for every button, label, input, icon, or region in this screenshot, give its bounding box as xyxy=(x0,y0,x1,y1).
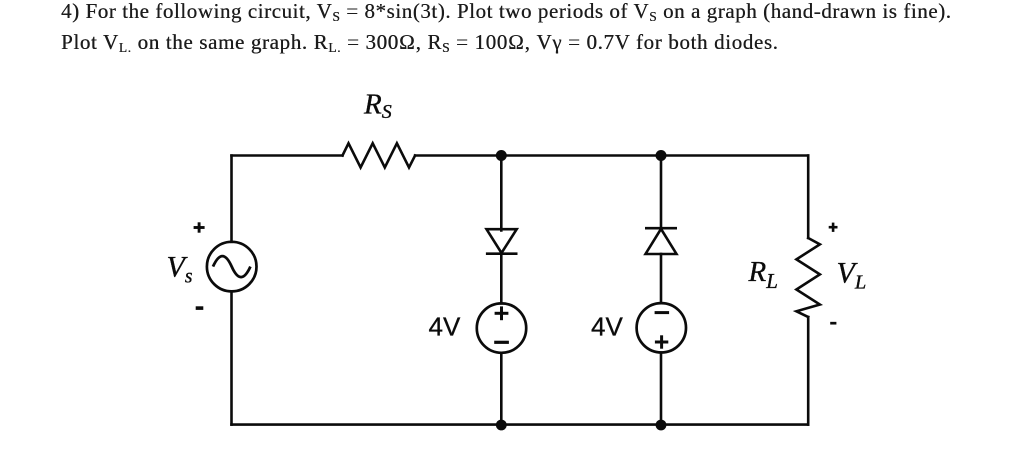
VL - polarity mark xyxy=(830,322,836,325)
wire: D2 branch from node B to diode D2 xyxy=(660,156,663,229)
wire: top from node B to top-right corner xyxy=(661,154,808,157)
node B (top junction of D2 branch) xyxy=(656,150,667,161)
wire: bottom from VS branch to node C xyxy=(232,423,502,426)
wire: top-left from VS branch to RS xyxy=(232,154,343,157)
wire: bottom from node C to node D xyxy=(501,423,661,426)
VS - polarity mark xyxy=(196,306,204,310)
svg-text:VL: VL xyxy=(837,257,867,294)
node C (bottom junction of D1 branch) xyxy=(496,420,507,431)
VS + polarity mark xyxy=(194,222,205,232)
wire: right branch above RL xyxy=(807,156,810,239)
wire: left branch above VS source xyxy=(230,156,233,242)
diode D2 (cathode up) xyxy=(645,228,677,254)
svg-text:RS: RS xyxy=(363,89,392,124)
resistor RS xyxy=(343,143,416,167)
wire: D1 branch from node A to diode D1 xyxy=(500,156,503,231)
wire: top from RS to node A xyxy=(415,154,501,157)
source V2 (4V battery, + down) xyxy=(637,303,686,352)
wire: bottom from node D to bottom-right corner xyxy=(661,423,808,426)
wire: D1 branch from source V1 to node C xyxy=(500,353,503,425)
svg-text:RL: RL xyxy=(748,256,778,293)
wire: D2 branch from source V2 to node D xyxy=(660,353,663,425)
wire: top from node A to node B xyxy=(501,154,661,157)
svg-text:4V: 4V xyxy=(591,311,623,341)
resistor RL xyxy=(796,238,820,317)
node D (bottom junction of D2 branch) xyxy=(656,420,667,431)
svg-text:Vs: Vs xyxy=(167,251,193,288)
wire: D1 branch from diode D1 to source V1 xyxy=(500,254,503,304)
wire: D2 branch from diode D2 to source V2 xyxy=(660,254,663,303)
source V1 (4V battery, + up) xyxy=(477,303,526,352)
svg-text:4V: 4V xyxy=(429,312,461,342)
diode D1 (cathode down) xyxy=(486,229,518,254)
node A (top junction of D1 branch) xyxy=(496,150,507,161)
VL + polarity mark xyxy=(829,223,838,232)
wire: left branch below VS source xyxy=(230,291,233,424)
problem text xyxy=(61,0,1021,58)
source VS (sine voltage source) xyxy=(207,242,257,292)
wire: right branch below RL xyxy=(807,317,810,425)
